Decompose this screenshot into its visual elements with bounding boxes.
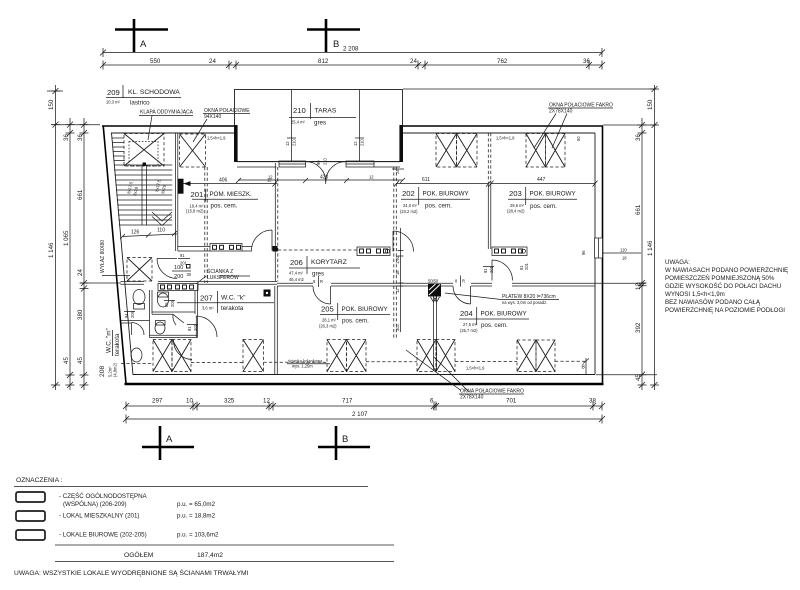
svg-text:BEZ NAWIASÓW PODANO CAŁĄ: BEZ NAWIASÓW PODANO CAŁĄ: [665, 299, 761, 306]
section marker B bottom: [318, 426, 370, 460]
svg-text:B: B: [582, 365, 586, 371]
svg-text:201: 201: [180, 261, 188, 266]
svg-text:gres: gres: [312, 271, 324, 278]
svg-text:- CZĘŚĆ OGÓLNODOSTĘPNA: - CZĘŚĆ OGÓLNODOSTĘPNA: [59, 492, 148, 500]
svg-text:1,5<h<1,9: 1,5<h<1,9: [466, 366, 485, 371]
svg-text:W NAWIASACH PODANO POWIERZCHNI: W NAWIASACH PODANO POWIERZCHNIĘ: [665, 267, 788, 274]
svg-text:46,4 m2: 46,4 m2: [289, 277, 305, 282]
bottom roof window lobby: [243, 340, 264, 372]
svg-text:29,6 m²: 29,6 m²: [510, 203, 525, 208]
svg-text:203: 203: [509, 189, 522, 198]
svg-text:12: 12: [268, 175, 273, 180]
dashed roof line x395: [394, 167, 397, 339]
svg-text:UWAGA: WSZYSTKIE LOKALE WYODRĘ: UWAGA: WSZYSTKIE LOKALE WYODRĘBNIONE SĄ …: [14, 568, 249, 577]
svg-text:POWIERZCHNIĘ NA POZIOMIE PODŁO: POWIERZCHNIĘ NA POZIOMIE PODŁOGI: [665, 307, 785, 314]
svg-text:2 107: 2 107: [352, 411, 368, 418]
svg-text:1 146: 1 146: [647, 240, 654, 256]
svg-text:2X78X140: 2X78X140: [549, 109, 573, 115]
svg-text:36: 36: [583, 58, 590, 65]
svg-text:POK. BIUROWY: POK. BIUROWY: [481, 311, 527, 318]
room 210 label: [289, 103, 356, 127]
svg-text:36: 36: [63, 134, 70, 141]
bottom roof window wc: [153, 340, 191, 372]
vent shaft: [264, 290, 271, 297]
central post: [428, 279, 441, 297]
svg-text:205: 205: [321, 305, 334, 314]
svg-text:297: 297: [152, 398, 163, 405]
room 206 label: [289, 256, 360, 282]
outer wall top: [102, 126, 603, 133]
svg-text:R: R: [320, 279, 323, 284]
kolankowa dashed line: [121, 358, 589, 375]
svg-text:OZNACZENIA :: OZNACZENIA :: [16, 477, 63, 484]
room 201 label: [186, 189, 258, 214]
svg-text:201: 201: [524, 262, 529, 270]
korytarz door dims: [395, 228, 404, 332]
svg-text:12: 12: [353, 141, 358, 146]
svg-text:47,4 m²: 47,4 m²: [289, 271, 304, 276]
room 209 label: [106, 85, 181, 107]
room 208 label rotated: [99, 328, 121, 377]
svg-text:R: R: [462, 279, 465, 284]
label platew: [445, 293, 559, 305]
label scianka kolankowa: [287, 359, 330, 369]
svg-text:110: 110: [157, 228, 165, 234]
svg-text:91: 91: [483, 268, 488, 273]
svg-text:UWAGA:: UWAGA:: [665, 259, 690, 266]
svg-text:2X78X140: 2X78X140: [460, 395, 484, 401]
korytarz top wall with blocks: [278, 247, 527, 256]
svg-text:3,6 m²: 3,6 m²: [202, 306, 214, 311]
door 203: [492, 260, 513, 281]
svg-text:(WSPÓLNA) (206-209): (WSPÓLNA) (206-209): [63, 501, 127, 508]
svg-text:pos. cem.: pos. cem.: [211, 203, 238, 210]
door wc m: [132, 323, 145, 336]
svg-text:GDZIE WYSOKOŚĆ DO POŁACI DACHU: GDZIE WYSOKOŚĆ DO POŁACI DACHU: [665, 282, 781, 290]
svg-text:terakota: terakota: [221, 305, 244, 312]
rooms 204-205 top wall: [277, 283, 595, 286]
stair dim 126/110: [120, 228, 177, 240]
left dimension chain inner 36/661/24/380/45: [77, 118, 89, 390]
svg-text:TARAS: TARAS: [315, 108, 337, 115]
svg-text:206: 206: [290, 258, 303, 267]
staircase right wall: [176, 133, 178, 251]
svg-text:B: B: [333, 39, 339, 50]
svg-text:701: 701: [506, 398, 517, 405]
svg-text:96: 96: [581, 250, 586, 255]
svg-text:812: 812: [318, 58, 329, 65]
svg-text:204: 204: [460, 309, 474, 318]
bottom dimension chain 297/10/325/12/717/6/701/38: [123, 398, 605, 411]
svg-text:201: 201: [489, 265, 494, 273]
svg-text:na wys. 3,0m od posadz.: na wys. 3,0m od posadz.: [502, 300, 547, 305]
svg-text:- LOKALE BIUROWE (202-205): - LOKALE BIUROWE (202-205): [59, 532, 147, 539]
svg-text:24: 24: [77, 269, 84, 276]
svg-text:8x29: 8x29: [160, 184, 167, 194]
door marks 8/R: [187, 262, 529, 331]
svg-text:210: 210: [292, 138, 297, 146]
wall 201/lobby with glass blocks: [178, 246, 278, 252]
svg-text:209: 209: [107, 88, 120, 97]
bottom dimension line total 2107: [123, 411, 605, 424]
svg-text:24,0 m²: 24,0 m²: [403, 203, 418, 208]
svg-text:(25,7 m2): (25,7 m2): [460, 328, 478, 333]
label klapa oddymiajaca: [139, 110, 194, 141]
svg-text:W.C. "k": W.C. "k": [221, 295, 246, 302]
svg-text:50|50: 50|50: [428, 279, 439, 284]
svg-text:12: 12: [263, 398, 270, 405]
svg-text:380: 380: [77, 309, 84, 320]
svg-text:447: 447: [537, 177, 546, 183]
svg-text:661: 661: [635, 204, 642, 215]
door 204: [453, 286, 471, 304]
svg-text:12: 12: [285, 141, 290, 146]
svg-text:gres: gres: [314, 120, 326, 127]
right wall window: [581, 238, 641, 261]
svg-text:1,93: 1,93: [395, 255, 400, 264]
bottom roof windows 204: [517, 340, 555, 372]
dim 447 room 203: [489, 177, 598, 187]
svg-text:KLAPA ODDYMIAJĄCA: KLAPA ODDYMIAJĄCA: [140, 110, 194, 116]
svg-text:18: 18: [622, 256, 627, 261]
svg-text:200: 200: [174, 274, 183, 280]
svg-text:A: A: [166, 434, 173, 445]
svg-text:1 146: 1 146: [48, 242, 55, 258]
svg-text:(23,2 m2): (23,2 m2): [400, 209, 418, 214]
svg-text:W.C. "m": W.C. "m": [106, 328, 113, 353]
door wc k entry: [196, 316, 217, 338]
svg-text:(15,8 m2): (15,8 m2): [186, 209, 204, 214]
svg-text:1,5<h<1,9: 1,5<h<1,9: [207, 136, 226, 141]
glass blocks row wc: [158, 284, 198, 291]
svg-text:OGÓŁEM: OGÓŁEM: [124, 550, 154, 559]
svg-text:POK. BIUROWY: POK. BIUROWY: [530, 191, 576, 198]
door wc big arc: [173, 340, 192, 360]
bottom roof windows 205: [327, 340, 366, 372]
toilet wc m: [133, 290, 145, 310]
svg-text:90: 90: [316, 160, 321, 165]
svg-text:8: 8: [455, 279, 458, 284]
svg-text:(28,4 m2): (28,4 m2): [507, 209, 525, 214]
stair labels: [126, 178, 167, 196]
outer wall bottom: [125, 375, 604, 385]
svg-text:94: 94: [124, 313, 129, 318]
wc small dims: [124, 253, 190, 318]
svg-text:202: 202: [402, 189, 415, 198]
svg-text:2 208: 2 208: [343, 46, 359, 53]
dashed wall x276 korytarz west: [275, 163, 278, 282]
right dimension chain inner 36/661/12/392/45: [603, 118, 657, 390]
svg-text:210: 210: [360, 138, 365, 146]
section marker A bottom: [142, 426, 194, 460]
svg-text:POMIESZCZEŃ POMNIEJSZONĄ 50%: POMIESZCZEŃ POMNIEJSZONĄ 50%: [665, 275, 775, 282]
svg-text:WYNOSI 1,5<h<1,9m: WYNOSI 1,5<h<1,9m: [665, 291, 725, 298]
svg-text:150: 150: [647, 99, 654, 110]
extension lines chains: [51, 125, 657, 375]
svg-text:611: 611: [422, 177, 430, 183]
label okna polaciowe fakro bottom: [406, 350, 524, 401]
label okna polaciowe fakro top: [534, 103, 613, 149]
svg-text:550: 550: [150, 58, 161, 65]
section marker A top: [115, 19, 168, 52]
taras mullion dims: [285, 138, 404, 174]
room 204 label: [459, 307, 529, 333]
svg-text:POK. BIUROWY: POK. BIUROWY: [342, 306, 388, 313]
taras window left: [279, 90, 306, 167]
svg-text:KORYTARZ: KORYTARZ: [311, 259, 347, 266]
svg-text:12: 12: [369, 175, 374, 180]
svg-text:24: 24: [209, 58, 216, 65]
svg-text:150: 150: [48, 99, 55, 110]
svg-text:LUKSFERÓW: LUKSFERÓW: [207, 274, 239, 281]
svg-text:762: 762: [497, 58, 508, 65]
svg-text:201: 201: [193, 323, 198, 331]
wc rooms walls: [121, 284, 198, 337]
svg-text:WYŁAZ 80X80: WYŁAZ 80X80: [100, 240, 106, 273]
stair treads: [114, 165, 172, 225]
svg-text:terakota: terakota: [114, 333, 121, 356]
svg-text:210: 210: [323, 157, 328, 165]
svg-text:30: 30: [187, 272, 192, 277]
svg-text:36: 36: [635, 134, 642, 141]
svg-text:pos. cem.: pos. cem.: [425, 203, 452, 210]
bottom roof windows 205/204: [417, 340, 455, 372]
svg-text:36: 36: [77, 134, 84, 141]
svg-text:24: 24: [410, 58, 417, 65]
svg-text:201: 201: [191, 190, 204, 199]
note right UWAGA: [665, 259, 788, 314]
svg-text:pos. cem.: pos. cem.: [481, 322, 508, 329]
door 205: [313, 286, 331, 304]
label okna polaciowe 94x140: [193, 108, 250, 142]
right dimension chain outer 150/1146: [403, 85, 659, 390]
svg-text:wys. 1,25m: wys. 1,25m: [292, 364, 313, 369]
svg-text:85: 85: [164, 302, 169, 307]
beam line 204/205: [431, 297, 440, 372]
wall 205 west: [275, 286, 278, 375]
door wc k stall: [173, 314, 184, 325]
toilet wc k upper: [158, 292, 169, 307]
outer wall left (slanted): [103, 126, 133, 384]
svg-text:120: 120: [620, 248, 628, 253]
door korytarz/201 lobby: [252, 230, 273, 251]
svg-text:10,3 m²: 10,3 m²: [106, 100, 121, 105]
svg-text:45: 45: [63, 357, 70, 364]
svg-text:12: 12: [395, 288, 400, 293]
room 203 label: [507, 187, 577, 214]
svg-text:60: 60: [576, 136, 581, 141]
svg-text:27,5 m²: 27,5 m²: [463, 322, 478, 327]
taras window right: [346, 90, 374, 167]
svg-text:24: 24: [395, 169, 400, 174]
stair stringer: [142, 163, 147, 226]
svg-text:A: A: [140, 39, 147, 50]
room 202 label: [400, 187, 470, 214]
svg-text:1 065: 1 065: [63, 230, 70, 246]
svg-text:91: 91: [187, 326, 192, 331]
top dimension line total 2208: [100, 46, 605, 58]
room 205 label: [319, 303, 390, 329]
svg-text:717: 717: [342, 398, 353, 405]
svg-text:- LOKAL MIESZKALNY (201): - LOKAL MIESZKALNY (201): [59, 513, 139, 520]
roof window 201: [180, 134, 227, 167]
svg-text:302: 302: [395, 323, 400, 331]
svg-text:(4,8m2): (4,8m2): [113, 362, 118, 377]
svg-text:p.u. = 103,6m2: p.u. = 103,6m2: [177, 532, 219, 539]
svg-text:ŚCIANKA Z: ŚCIANKA Z: [207, 267, 233, 275]
left dimension chain outer 150/1146: [47, 85, 63, 390]
sink wc m: [131, 348, 142, 362]
svg-text:6: 6: [430, 398, 434, 405]
dim 611 room 202: [394, 177, 491, 187]
svg-text:406: 406: [219, 178, 228, 184]
svg-text:91: 91: [180, 253, 185, 258]
door lobby: [157, 259, 177, 279]
svg-text:208: 208: [99, 366, 106, 377]
lobby roof hatch window: [127, 258, 152, 282]
taras walls: [234, 90, 403, 168]
svg-text:8: 8: [313, 279, 316, 284]
roof windows 202: [436, 134, 477, 168]
roof window stair: [124, 134, 164, 167]
svg-text:205: 205: [170, 299, 175, 307]
svg-text:(26,3 m2): (26,3 m2): [319, 324, 337, 329]
toilet wc k lower: [155, 321, 165, 335]
label scianka z luksferow: [196, 267, 250, 284]
svg-text:28,1 m²: 28,1 m²: [322, 318, 337, 323]
svg-text:12: 12: [635, 283, 642, 290]
svg-text:420: 420: [320, 175, 329, 181]
left dimension chain mid 36/1065/45: [63, 118, 75, 390]
svg-text:325: 325: [224, 398, 235, 405]
glass blocks row 201: [210, 244, 242, 252]
svg-text:POK. BIUROWY: POK. BIUROWY: [423, 191, 469, 198]
outer wall right: [595, 126, 603, 385]
svg-text:pos. cem.: pos. cem.: [530, 203, 557, 210]
taras dim 420: [236, 175, 405, 184]
svg-text:lastrico: lastrico: [130, 100, 150, 107]
room 207 label: [177, 291, 274, 313]
svg-text:18: 18: [395, 270, 400, 275]
door size labels 100/200: [172, 265, 192, 281]
svg-text:p.u. = 18,8m2: p.u. = 18,8m2: [177, 513, 216, 520]
dashed roof line x206: [204, 167, 206, 283]
top dimension chain 550/24/812/24/762/36: [100, 58, 605, 70]
svg-text:10: 10: [186, 398, 193, 405]
dim 406 room 201: [178, 178, 278, 194]
section marker B top: [307, 19, 360, 52]
svg-text:100: 100: [174, 265, 183, 271]
wall 202/203: [488, 133, 491, 249]
svg-text:POM. MIESZK.: POM. MIESZK.: [210, 191, 253, 198]
label wylaz: [100, 240, 130, 276]
svg-text:25,4 m²: 25,4 m²: [291, 120, 306, 125]
svg-text:126: 126: [131, 230, 140, 236]
svg-text:pos. cem.: pos. cem.: [342, 318, 369, 325]
svg-text:661: 661: [77, 189, 84, 200]
stair direction arrows: [152, 212, 172, 226]
svg-text:B: B: [342, 434, 348, 445]
roof windows 203: [496, 134, 581, 168]
svg-text:210: 210: [293, 106, 306, 115]
wc zone top wall: [121, 282, 278, 285]
legend block: [14, 477, 394, 562]
svg-text:205: 205: [130, 310, 135, 318]
svg-text:207: 207: [200, 294, 213, 303]
svg-text:45: 45: [77, 357, 84, 364]
door 202: [393, 231, 414, 252]
taras french door arcs: [306, 161, 347, 184]
svg-text:187,4m2: 187,4m2: [197, 552, 223, 559]
svg-text:38: 38: [589, 398, 596, 405]
svg-text:392: 392: [635, 322, 642, 333]
svg-text:1,5<h<1,9: 1,5<h<1,9: [496, 136, 515, 141]
svg-text:p.u. = 65,0m2: p.u. = 65,0m2: [177, 501, 216, 508]
svg-text:KL. SCHODOWA: KL. SCHODOWA: [128, 89, 180, 96]
